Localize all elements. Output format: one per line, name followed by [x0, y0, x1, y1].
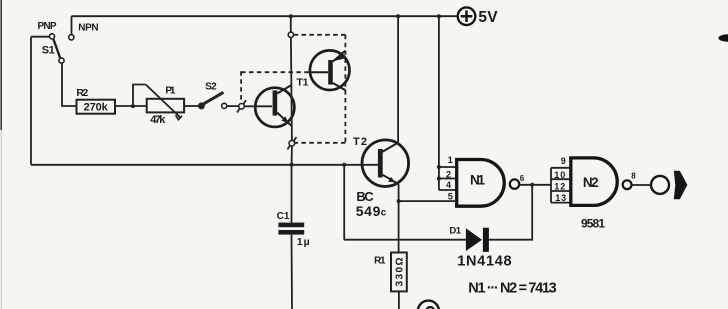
- wire: D1 cathode to N1 output: [489, 185, 532, 240]
- transistor T1 (PNP position) circle: [310, 50, 350, 90]
- transistor T2 emitter arrow: [388, 177, 395, 183]
- svg-text:D1: D1: [449, 226, 461, 237]
- wire: C1 top lead: [291, 165, 293, 223]
- bottom terminal (partially cropped): [418, 301, 439, 309]
- wire: rail down to N1 input tie: [438, 16, 440, 190]
- svg-text:8: 8: [631, 171, 636, 180]
- transistor NPN collector lead: [277, 85, 291, 94]
- dashed PNP-alternative base path (top edge): [241, 71, 310, 73]
- capacitor C1 bottom plate: [278, 230, 304, 235]
- transistor T1 collector lead (bottom): [333, 83, 346, 90]
- transistor T2 base bar: [378, 149, 383, 178]
- dashed socket outline (top edge): [294, 34, 346, 36]
- node: rail junction at socket wire: [289, 14, 293, 18]
- N1 output bubble: [510, 179, 519, 188]
- wire: socket vertical (collector-emitter line): [291, 38, 292, 141]
- dashed socket outline (right edge): [344, 35, 346, 143]
- transistor NPN emitter arrow: [282, 116, 289, 123]
- dashed PNP-alternative base path (left edge): [240, 71, 242, 102]
- switch S2 open contact: [222, 103, 227, 108]
- svg-text:270k: 270k: [84, 102, 109, 114]
- transistor T2 collector lead: [383, 143, 398, 152]
- transistor (NPN position, in test socket) circle: [255, 88, 294, 127]
- svg-text:PNP: PNP: [38, 21, 57, 32]
- transistor T1 emitter arrow (PNP, pointing to base): [335, 54, 344, 61]
- node: D1 feedback tap: [342, 163, 346, 167]
- wire: rail left drop to NPN contact: [71, 16, 73, 34]
- svg-text:549: 549: [356, 203, 381, 219]
- switch S1 NPN contact: [69, 35, 74, 40]
- svg-text:13: 13: [555, 193, 566, 203]
- svg-text:12: 12: [554, 182, 565, 192]
- wire: left rail vertical: [30, 37, 32, 165]
- potentiometer P1 box: [147, 99, 184, 113]
- node: T2 emitter junction: [397, 199, 401, 203]
- svg-text:N1: N1: [470, 173, 485, 188]
- node: D1 junction on N1 output: [530, 183, 534, 187]
- node: rail junction T2 collector: [396, 14, 400, 18]
- wire: P1 to S2: [184, 105, 199, 107]
- node: tie junction pin1: [437, 165, 441, 169]
- potentiometer P1 wiper end tick: [176, 115, 182, 119]
- switch S2 arm: [203, 92, 224, 104]
- wire: N1 pin4 lead: [439, 189, 457, 191]
- diode D1 cathode bar: [483, 228, 489, 252]
- svg-text:N1 ··· N2 = 7413: N1 ··· N2 = 7413: [468, 280, 556, 296]
- resistor R2 box: [77, 100, 116, 114]
- page edge mark right: [718, 34, 728, 42]
- wire: N2 pin10 lead: [551, 178, 571, 180]
- switch S1 pole contact: [59, 58, 64, 63]
- wire: R2 to P1: [115, 105, 147, 107]
- wire: top +5V rail: [72, 15, 458, 17]
- output arrow: [674, 171, 688, 200]
- svg-text:47k: 47k: [150, 114, 166, 126]
- N2 output bubble: [623, 180, 632, 189]
- wire: clip down to emitter line: [291, 146, 293, 165]
- svg-text:1: 1: [448, 155, 453, 165]
- diode D1 triangle: [466, 228, 482, 251]
- node: tie junction pin2: [437, 177, 441, 181]
- wire: C1 bottom lead: [291, 235, 294, 309]
- svg-text:9: 9: [561, 156, 566, 166]
- svg-text:C1: C1: [277, 211, 290, 222]
- svg-text:c: c: [381, 208, 387, 219]
- NAND gate N2 body: [571, 158, 617, 206]
- capacitor C1 top plate: [278, 223, 304, 228]
- wire: N2 input tie: [550, 168, 552, 203]
- wire: D1 feedback from emitter line down: [343, 165, 345, 240]
- wire: PNP contact to left rail: [31, 36, 49, 38]
- wire: N2 pin13 lead: [551, 202, 571, 204]
- wire: R1 bottom lead: [398, 291, 400, 309]
- transistor T1 emitter lead (top): [333, 51, 346, 62]
- 5V supply terminal: [458, 7, 476, 25]
- transistor NPN base bar: [273, 90, 278, 115]
- transistor T2 emitter lead: [383, 175, 399, 184]
- svg-text:1N4148: 1N4148: [457, 254, 511, 270]
- wire: N2 pin12 lead: [551, 190, 571, 192]
- switch S2 pole (filled): [198, 102, 205, 109]
- svg-text:P1: P1: [165, 86, 175, 97]
- svg-text:330Ω: 330Ω: [394, 258, 405, 287]
- svg-text:5V: 5V: [478, 9, 498, 26]
- svg-text:6: 6: [520, 174, 525, 183]
- transistor NPN emitter lead: [277, 113, 292, 127]
- svg-text:2: 2: [446, 169, 451, 179]
- emitter test clip node: [287, 137, 296, 149]
- wire: T2 collector to rail: [397, 16, 399, 142]
- wire: D1 anode lead: [344, 239, 466, 241]
- svg-text:1µ: 1µ: [297, 236, 310, 248]
- wire: N1 pin2 lead: [439, 178, 457, 180]
- wire: rail to collector socket terminal: [290, 16, 292, 32]
- svg-text:5: 5: [448, 192, 453, 202]
- wire: P1 wiper bypass: [133, 85, 146, 107]
- wire: N1 pin1 lead: [439, 166, 457, 168]
- svg-text:NPN: NPN: [78, 22, 98, 33]
- dashed socket outline (bottom edge): [295, 142, 346, 144]
- base test clip node: [237, 100, 246, 112]
- svg-text:4: 4: [446, 180, 451, 190]
- node: C1 tap: [290, 163, 294, 167]
- svg-text:S2: S2: [205, 82, 217, 93]
- wire: N2 pin9 lead: [551, 167, 571, 169]
- wire: N2 output to terminal: [632, 184, 652, 186]
- switch S1 PNP contact: [49, 34, 54, 39]
- node junction at P1 wiper tap: [131, 104, 135, 108]
- transistor T1 base bar: [328, 60, 333, 85]
- svg-text:BC: BC: [356, 189, 374, 204]
- wire: S2 to base clip: [227, 105, 239, 107]
- wire: pin5 lead from T2 emitter to N1: [399, 200, 457, 202]
- svg-text:R2: R2: [76, 87, 88, 99]
- wire: N1 output to N2 inputs: [519, 184, 551, 186]
- socket collector terminal: [288, 32, 293, 37]
- switch S1 arm: [53, 39, 60, 59]
- wire: S1 pole down and to R2: [62, 63, 77, 106]
- svg-text:T1: T1: [297, 77, 309, 89]
- wire: emitter/base horizontal line: [31, 164, 378, 166]
- wire: T2 emitter down to R1: [398, 184, 400, 252]
- svg-text:9581: 9581: [581, 217, 605, 231]
- svg-text:10: 10: [554, 170, 565, 180]
- output terminal circle: [651, 176, 669, 194]
- page edge line left: [0, 0, 2, 130]
- svg-text:T2: T2: [353, 136, 367, 148]
- svg-text:S1: S1: [42, 45, 55, 57]
- svg-text:R1: R1: [374, 255, 386, 266]
- wire: clip to transistor base: [244, 105, 272, 107]
- resistor R1 box: [391, 253, 407, 292]
- transistor T2 circle: [362, 140, 409, 187]
- transistor T1 base lead (inside circle): [310, 71, 328, 73]
- node: rail junction N1 inputs: [437, 14, 441, 18]
- NAND gate N1 body: [457, 160, 505, 207]
- potentiometer P1 wiper diagonal: [146, 85, 181, 119]
- svg-text:N2: N2: [583, 175, 599, 190]
